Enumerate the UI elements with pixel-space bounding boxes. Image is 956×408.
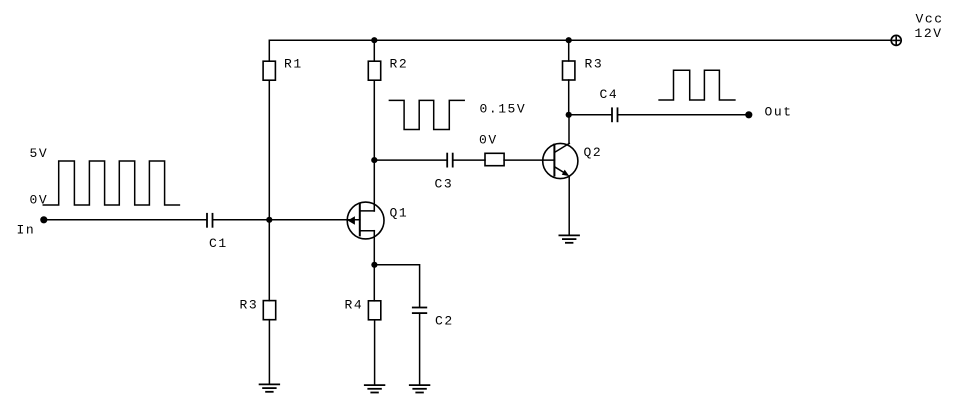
power Vcc terminal symbol [891,35,901,45]
wire C2 bottom to ground [419,314,421,385]
svg-text:C4: C4 [600,87,619,102]
wire junction to C4 [569,114,611,116]
svg-text:C2: C2 [435,314,454,329]
wire C1 to Q1 gate [214,219,360,221]
wire In to C1 [44,219,206,221]
transistor Q2 (NPN BJT) [543,143,578,178]
svg-text:Q2: Q2 [584,145,603,160]
node source junction [371,262,377,268]
wire top supply rail [269,40,891,61]
resistor R3 (lower left) [263,301,275,320]
svg-text:0.15V: 0.15V [480,102,527,117]
capacitor C1 [207,214,213,227]
wire drain node to C3 [374,159,446,161]
wire rail to R2 top [373,40,375,61]
wire Q2 collector up to output junction [568,115,570,144]
ground below R3 [260,384,280,391]
resistor R2 [368,61,380,80]
node drain junction [371,157,377,163]
wire R3 bottom to ground [268,320,270,385]
svg-text:5V: 5V [30,146,49,161]
capacitor C3 [447,154,453,167]
wire R3 top (from rail) [568,40,570,61]
waveform input 5V square wave [43,161,179,205]
ground below C2 [410,385,430,392]
svg-text:Out: Out [765,105,793,120]
wire R3 bottom to output junction [568,80,570,115]
svg-text:12V: 12V [915,26,943,41]
capacitor C2 [413,308,427,314]
svg-text:C3: C3 [435,177,454,192]
capacitor C4 [612,108,618,121]
node input junction [266,217,272,223]
svg-text:R2: R2 [390,57,409,72]
svg-text:Vcc: Vcc [916,12,944,27]
svg-text:R3: R3 [240,298,259,313]
wire R4 bottom to ground [374,320,376,385]
svg-text:R3: R3 [585,57,604,72]
wire base resistor to Q2 base [504,159,554,161]
wire R2 bottom through drain node into Q1 drain [373,80,375,211]
resistor R3 (upper right) [563,61,575,80]
wire R1 bottom to input junction to R3 top [268,80,270,300]
terminal In node [40,216,47,223]
svg-text:Q1: Q1 [390,206,409,221]
wire Q1 source down to bypass junction [373,231,375,301]
waveform drain 0.15V square wave [389,100,464,129]
wire junction to C2 top [374,265,419,307]
svg-text:R4: R4 [345,298,364,313]
svg-text:R1: R1 [284,57,303,72]
svg-text:C1: C1 [209,236,228,251]
resistor base (unlabeled box) [485,153,504,165]
svg-text:0V: 0V [479,133,498,148]
resistor R4 [368,301,380,320]
node collector junction [566,112,572,118]
transistor Q1 (JFET) [347,202,384,239]
svg-text:0V: 0V [30,193,49,208]
terminal Out node [745,111,752,118]
waveform output square wave [659,70,735,100]
wire C3 to base resistor [454,159,485,161]
ground below R4 [365,385,385,392]
node rail junction at R2 [371,37,377,43]
wire Q2 emitter to ground [568,176,570,235]
resistor R1 [263,61,275,80]
ground below Q2 [559,235,579,242]
wire C4 to Out [619,114,749,116]
node rail junction at R3 top [566,37,572,43]
svg-text:In: In [17,223,36,238]
